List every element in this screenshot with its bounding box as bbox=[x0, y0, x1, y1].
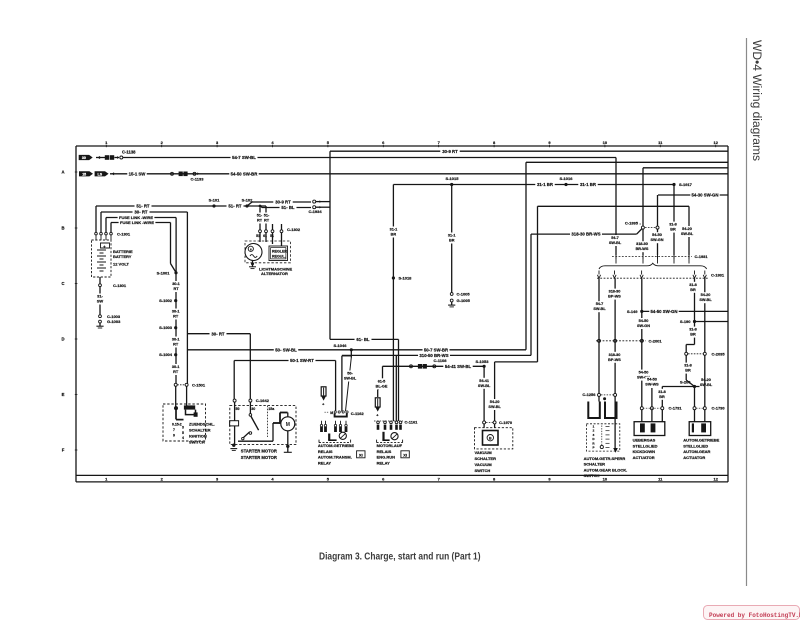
svg-text:3: 3 bbox=[182, 425, 184, 429]
svg-text:ENG.RUN: ENG.RUN bbox=[377, 455, 396, 460]
svg-text:C-1161: C-1161 bbox=[405, 420, 419, 425]
svg-text:M: M bbox=[286, 422, 290, 428]
svg-text:C-1934: C-1934 bbox=[308, 209, 322, 214]
svg-text:SCHALTER: SCHALTER bbox=[189, 428, 211, 433]
wire battery negative bbox=[99, 277, 101, 284]
connector C-2001 bbox=[596, 340, 646, 342]
connector C-1931 row 2 bbox=[597, 277, 708, 279]
wire S-200 line bbox=[662, 386, 705, 388]
svg-text:SWITCH: SWITCH bbox=[475, 468, 491, 473]
svg-text:SW-BL: SW-BL bbox=[593, 307, 606, 311]
svg-text:SW-BL: SW-BL bbox=[344, 377, 357, 381]
svg-text:54-20: 54-20 bbox=[701, 378, 711, 382]
wire 51- RT (battery main) bbox=[96, 205, 266, 207]
wire 31-8 BR below C-2035 bbox=[685, 355, 687, 380]
svg-text:SW-BL: SW-BL bbox=[478, 384, 491, 388]
connector C-1108 bbox=[410, 365, 413, 368]
svg-text:SCHALTER: SCHALTER bbox=[584, 462, 606, 467]
svg-text:12 VOLT: 12 VOLT bbox=[113, 262, 129, 267]
separator line bbox=[746, 38, 748, 586]
wire 31- SW bbox=[99, 287, 101, 315]
connector C-1005 bbox=[450, 293, 453, 296]
wire x689 drop 54-20 SW-BL bbox=[688, 206, 690, 255]
svg-text:SW-BL: SW-BL bbox=[609, 241, 622, 245]
svg-text:VAKUUM: VAKUUM bbox=[475, 450, 493, 455]
C-1138 pin circle and arrow bbox=[114, 157, 119, 159]
svg-text:4: 4 bbox=[182, 436, 184, 440]
svg-text:AUTOM.GEAR BLOCK.: AUTOM.GEAR BLOCK. bbox=[584, 467, 628, 472]
svg-text:C-1970: C-1970 bbox=[499, 420, 513, 425]
svg-text:C-1005: C-1005 bbox=[457, 292, 471, 297]
harness brace bbox=[599, 263, 707, 269]
svg-text:C-1935: C-1935 bbox=[625, 221, 639, 226]
svg-text:SW-BL: SW-BL bbox=[681, 232, 694, 236]
svg-text:D: D bbox=[61, 337, 64, 342]
svg-text:54-30 SW-GN: 54-30 SW-GN bbox=[692, 193, 719, 198]
node S-1003 bbox=[174, 326, 177, 329]
svg-text:RELAY: RELAY bbox=[377, 460, 391, 465]
svg-text:S-1002: S-1002 bbox=[159, 298, 173, 303]
wire 31-1 BR (S-1015 line) bbox=[393, 184, 674, 186]
svg-text:STARTER MOTOR: STARTER MOTOR bbox=[241, 449, 277, 454]
ignition switch internals bbox=[175, 386, 177, 408]
svg-text:ACTUATOR: ACTUATOR bbox=[633, 455, 655, 460]
svg-text:SW-BL: SW-BL bbox=[488, 405, 501, 409]
kickdown actuator bbox=[641, 410, 643, 422]
svg-text:C-1501: C-1501 bbox=[192, 382, 206, 387]
node S-102 bbox=[245, 204, 248, 207]
connector C-1970 bbox=[483, 421, 486, 424]
tag arrow LS (row 2 second) bbox=[95, 171, 109, 176]
svg-text:F: F bbox=[62, 448, 65, 453]
battery B1 12 VOLT bbox=[92, 240, 112, 277]
fuse F1 bbox=[321, 387, 326, 396]
svg-text:C-1931: C-1931 bbox=[695, 254, 709, 259]
relay K1 bracket bbox=[319, 442, 351, 444]
starter solenoid bbox=[234, 402, 236, 421]
node S-1053 bbox=[483, 365, 486, 368]
svg-text:SW-BL: SW-BL bbox=[700, 383, 713, 387]
svg-text:50- SW-BL: 50- SW-BL bbox=[275, 347, 297, 352]
svg-text:BR: BR bbox=[685, 369, 691, 373]
wire 54-30 SW-GN bbox=[658, 194, 728, 196]
fuse F2 bbox=[375, 398, 380, 407]
connector C-1501 bbox=[174, 383, 177, 386]
tag arrow 15 (row 2 left) bbox=[79, 171, 93, 176]
relay K1 internals bbox=[328, 434, 330, 441]
node S-1917 bbox=[672, 183, 675, 186]
svg-text:BR: BR bbox=[690, 288, 696, 292]
battery terminal stubs and circles C-1301 bbox=[95, 206, 97, 232]
svg-text:C-1108: C-1108 bbox=[434, 358, 448, 363]
svg-text:C-1256: C-1256 bbox=[582, 392, 596, 397]
svg-text:ZUENDSCHL.: ZUENDSCHL. bbox=[189, 422, 215, 427]
svg-text:54-53: 54-53 bbox=[647, 378, 657, 382]
svg-text:S-1053: S-1053 bbox=[476, 359, 490, 364]
svg-text:30-1: 30-1 bbox=[172, 310, 180, 314]
svg-text:STELLGLIED: STELLGLIED bbox=[683, 443, 708, 448]
connector C-1133 bbox=[171, 172, 174, 175]
svg-text:RT: RT bbox=[173, 287, 179, 291]
svg-text:RELAIS: RELAIS bbox=[318, 449, 333, 454]
svg-text:30-9 RT: 30-9 RT bbox=[442, 149, 458, 154]
regulator box REGLER bbox=[269, 246, 288, 261]
wire 54-7 SW-BL (row 1) bbox=[123, 157, 616, 159]
autom gear actuator bbox=[694, 410, 696, 422]
svg-text:30-9 RT: 30-9 RT bbox=[275, 200, 291, 205]
svg-text:SW: SW bbox=[97, 299, 104, 304]
svg-text:VACUUM: VACUUM bbox=[475, 462, 493, 467]
svg-text:0.15-2: 0.15-2 bbox=[172, 422, 182, 426]
starter switch lever bbox=[249, 402, 251, 414]
wire bus y168 bbox=[643, 167, 728, 169]
svg-text:54-41 SW-BL: 54-41 SW-BL bbox=[445, 364, 472, 369]
svg-text:50: 50 bbox=[236, 407, 240, 411]
svg-text:51- RT: 51- RT bbox=[136, 204, 150, 209]
svg-text:BR: BR bbox=[391, 233, 397, 237]
svg-text:S-101: S-101 bbox=[209, 198, 220, 203]
svg-text:B: B bbox=[489, 436, 492, 440]
node S-149 bbox=[642, 310, 728, 312]
border frame bbox=[76, 145, 728, 147]
svg-text:BR: BR bbox=[690, 333, 696, 337]
svg-text:B: B bbox=[61, 226, 64, 231]
svg-text:M: M bbox=[330, 411, 333, 415]
svg-text:31-8: 31-8 bbox=[689, 283, 697, 287]
svg-text:31-1 BR: 31-1 BR bbox=[537, 182, 554, 187]
svg-text:54-7: 54-7 bbox=[596, 302, 604, 306]
svg-text:AUTOM.GETR.SPERR: AUTOM.GETR.SPERR bbox=[584, 456, 626, 461]
svg-text:S-190: S-190 bbox=[680, 319, 691, 324]
node S-1001 bbox=[174, 271, 177, 274]
wire 54-53 SW-WS bbox=[651, 388, 653, 407]
wire row1 stub with arrowhead bbox=[96, 157, 105, 159]
svg-text:C-1931: C-1931 bbox=[711, 272, 725, 277]
svg-text:318-30: 318-30 bbox=[609, 290, 621, 294]
connector C-1642 bbox=[233, 399, 236, 402]
wire vertical 31-1 BR (x394) bbox=[392, 185, 394, 422]
gear switch arrow bbox=[613, 448, 618, 453]
connector C-1162 bbox=[334, 411, 336, 413]
ground alternator bbox=[251, 262, 254, 265]
connector C-1138 inline blocks bbox=[105, 155, 109, 160]
svg-text:C-1133: C-1133 bbox=[191, 177, 205, 182]
svg-text:LS: LS bbox=[98, 172, 103, 176]
svg-text:IGNITION: IGNITION bbox=[189, 434, 207, 439]
svg-text:54-7 SW-BL: 54-7 SW-BL bbox=[232, 155, 256, 160]
node S-1018 bbox=[392, 276, 395, 279]
svg-text:54-50 SW-BR: 54-50 SW-BR bbox=[231, 171, 259, 176]
wire 30- RT branch to starter bbox=[187, 333, 250, 335]
wire 54-41 row (C-1108) bbox=[383, 365, 485, 367]
svg-text:C-2001: C-2001 bbox=[649, 338, 663, 343]
svg-text:12: 12 bbox=[713, 140, 718, 145]
svg-text:S-1003: S-1003 bbox=[159, 325, 173, 330]
svg-text:FUSE LINK -WIRE: FUSE LINK -WIRE bbox=[120, 220, 154, 225]
relay K2 internals bbox=[382, 432, 384, 440]
vacuum switch bbox=[483, 424, 485, 428]
svg-text:54-50 SW-GN: 54-50 SW-GN bbox=[651, 309, 678, 314]
wire 61- BL bbox=[330, 338, 399, 340]
starter motor box bbox=[230, 406, 296, 445]
wire 31-8 BR x662 bbox=[661, 387, 663, 407]
svg-text:31-8: 31-8 bbox=[684, 364, 692, 368]
ground starter solenoid bbox=[232, 444, 235, 447]
wire 30- RT (battery second) bbox=[101, 211, 187, 213]
gear block switch box bbox=[586, 424, 619, 451]
svg-text:50-: 50- bbox=[347, 372, 353, 376]
wire vertical 31-1 BR (x451) bbox=[451, 185, 453, 293]
svg-text:54-50: 54-50 bbox=[652, 233, 662, 237]
svg-text:SW-GN: SW-GN bbox=[651, 238, 664, 242]
wire drops S-1046 to C-1162 bbox=[350, 350, 352, 356]
svg-text:KICKDOWN: KICKDOWN bbox=[633, 449, 656, 454]
node S-101 bbox=[212, 204, 215, 207]
svg-text:AUTOM.GETRIEBE: AUTOM.GETRIEBE bbox=[318, 443, 354, 448]
svg-text:RT: RT bbox=[264, 219, 270, 223]
svg-text:12: 12 bbox=[713, 477, 718, 482]
svg-text:50-1 SW-RT: 50-1 SW-RT bbox=[290, 358, 314, 363]
connector C-2035 bbox=[685, 352, 688, 355]
svg-text:STARTER MOTOR: STARTER MOTOR bbox=[241, 455, 277, 460]
svg-text:51- RT: 51- RT bbox=[228, 204, 242, 209]
svg-text:REGLER: REGLER bbox=[272, 250, 287, 254]
svg-text:RT: RT bbox=[257, 219, 263, 223]
svg-text:RT: RT bbox=[173, 315, 179, 319]
svg-text:SWITCH: SWITCH bbox=[189, 440, 205, 445]
node S-1004 bbox=[174, 353, 177, 356]
svg-text:BR: BR bbox=[659, 395, 665, 399]
svg-text:AUTOM.TRANSM.: AUTOM.TRANSM. bbox=[318, 455, 352, 460]
ground starter motor bbox=[287, 431, 289, 446]
svg-text:54-20: 54-20 bbox=[682, 227, 692, 231]
gear block switch contacts bbox=[603, 397, 606, 400]
svg-text:WD•4 Wiring diagrams: WD•4 Wiring diagrams bbox=[750, 40, 764, 161]
svg-text:BR-WS: BR-WS bbox=[636, 247, 649, 251]
svg-text:UEBERGAS: UEBERGAS bbox=[633, 438, 656, 443]
svg-text:Diagram 3. Charge, start and r: Diagram 3. Charge, start and run (Part 1… bbox=[319, 552, 481, 563]
svg-text:MOTORLAUF: MOTORLAUF bbox=[377, 443, 403, 448]
wire fuse-link drops to S-1001 bbox=[175, 218, 177, 273]
svg-text:XI: XI bbox=[403, 453, 407, 458]
svg-text:15: 15 bbox=[82, 172, 86, 176]
svg-text:BR: BR bbox=[670, 228, 676, 232]
svg-text:S-1046: S-1046 bbox=[334, 343, 348, 348]
svg-text:51-: 51- bbox=[264, 214, 270, 218]
connector C-1931 row 1 bbox=[612, 256, 692, 258]
svg-text:BR: BR bbox=[449, 239, 455, 243]
connector C-1161 bbox=[377, 421, 380, 424]
svg-text:30- RT: 30- RT bbox=[134, 210, 148, 215]
svg-text:31-8: 31-8 bbox=[658, 390, 666, 394]
wire 54-20 upper run bbox=[538, 205, 690, 207]
alternator U1 bbox=[245, 241, 291, 263]
wire alternator pin stubs bbox=[259, 208, 261, 230]
node S-1002 bbox=[174, 299, 177, 302]
svg-text:31-1: 31-1 bbox=[448, 234, 456, 238]
connector C-1301 lower bbox=[99, 284, 102, 287]
svg-text:30- RT: 30- RT bbox=[211, 331, 225, 336]
wire 318-30 BR-WS (to C-1935) bbox=[531, 233, 637, 235]
svg-text:7: 7 bbox=[173, 428, 175, 432]
wire 50- SW-BL / 50-7 SW-BR bbox=[187, 349, 526, 351]
wire x643 lower / 318-30 BR-WS bbox=[642, 229, 644, 255]
wire 54-50 SW-BR (row 2) bbox=[229, 171, 258, 176]
wire x657 drop 54-50 SW-GN bbox=[657, 195, 659, 226]
svg-text:C-1731: C-1731 bbox=[669, 406, 683, 411]
wire 30-1 RT chain bbox=[175, 273, 177, 383]
svg-text:61- BL: 61- BL bbox=[356, 337, 370, 342]
svg-text:SW-GN: SW-GN bbox=[637, 324, 650, 328]
wire S-1053 drop bbox=[483, 366, 485, 421]
relay K1 pins bbox=[321, 421, 323, 425]
svg-text:RT: RT bbox=[173, 343, 179, 347]
connector C-1003 bbox=[99, 315, 102, 318]
wire 50- SW-BL label bbox=[343, 371, 356, 382]
wire bus y162 bbox=[526, 161, 728, 163]
watermark bbox=[704, 606, 800, 620]
svg-text:318-30: 318-30 bbox=[636, 242, 648, 246]
svg-text:30-1: 30-1 bbox=[172, 338, 180, 342]
svg-text:50-7 SW-BR: 50-7 SW-BR bbox=[424, 347, 449, 352]
svg-text:S-1001: S-1001 bbox=[157, 270, 171, 275]
box XI (relay K2) bbox=[401, 451, 409, 458]
wire 54-50 SW-GN x641 bbox=[641, 278, 643, 407]
svg-text:A: A bbox=[61, 170, 64, 175]
wire fuse link 2 bbox=[111, 222, 171, 224]
svg-text:ACTUATOR: ACTUATOR bbox=[683, 455, 705, 460]
wire x643 drop bbox=[642, 168, 644, 226]
wire 318-30 BP-WS x615 bbox=[614, 278, 616, 394]
wire 30- RT drop x187 bbox=[186, 212, 188, 384]
connector C-1302 bbox=[259, 230, 262, 233]
wire 54-20 to C-1730 bbox=[704, 355, 706, 407]
node S-1015 bbox=[450, 183, 453, 186]
svg-text:5: 5 bbox=[182, 431, 184, 435]
node S-1046 bbox=[350, 348, 353, 351]
svg-text:C-1138: C-1138 bbox=[122, 150, 136, 155]
svg-text:STELLGLIED: STELLGLIED bbox=[633, 443, 658, 448]
connector C-1731 bbox=[640, 407, 643, 410]
svg-text:15-1 SW: 15-1 SW bbox=[129, 171, 147, 176]
svg-text:C: C bbox=[61, 281, 64, 286]
svg-text:C-1642: C-1642 bbox=[256, 398, 270, 403]
svg-text:54-41: 54-41 bbox=[479, 379, 489, 383]
svg-text:15a: 15a bbox=[268, 407, 275, 411]
svg-text:30-1: 30-1 bbox=[172, 282, 180, 286]
connector C-1730 bbox=[693, 407, 696, 410]
svg-text:E: E bbox=[62, 392, 65, 397]
wire 15-1 SW (row 2) bbox=[110, 173, 728, 175]
svg-text:SW-WS: SW-WS bbox=[645, 383, 659, 387]
ground G-1005 bbox=[450, 299, 453, 302]
wire vertical x330 (30-9 RT drop) bbox=[329, 151, 331, 339]
wire x674 drop 31-8 BR bbox=[673, 185, 675, 256]
svg-text:30: 30 bbox=[251, 407, 255, 411]
svg-text:AUTOM.GEAR: AUTOM.GEAR bbox=[683, 449, 710, 454]
svg-text:S-1016: S-1016 bbox=[560, 176, 574, 181]
svg-text:S-1015: S-1015 bbox=[446, 176, 460, 181]
relay K2 bracket bbox=[377, 442, 403, 444]
svg-text:Powered by FotoHostingTV.RU: Powered by FotoHostingTV.RU bbox=[709, 612, 800, 619]
svg-text:31-1: 31-1 bbox=[390, 228, 398, 232]
svg-text:S-200: S-200 bbox=[680, 380, 691, 385]
node S-1016 bbox=[564, 183, 567, 186]
svg-text:C-1162: C-1162 bbox=[351, 411, 365, 416]
ground G-1003 bbox=[99, 320, 102, 323]
svg-text:31-8: 31-8 bbox=[689, 328, 697, 332]
wire C-2035 jog bbox=[686, 344, 694, 346]
svg-text:61-5: 61-5 bbox=[378, 379, 386, 383]
svg-text:XI: XI bbox=[359, 453, 363, 458]
svg-text:AUTOM.GETRIEBE: AUTOM.GETRIEBE bbox=[683, 438, 719, 443]
svg-text:G-1003: G-1003 bbox=[107, 319, 121, 324]
wire vertical x531 (BR-WS riser) bbox=[530, 234, 532, 355]
svg-text:SWITCH: SWITCH bbox=[584, 473, 600, 478]
ignition switch box bbox=[163, 404, 206, 441]
svg-text:318-30 BR-WS: 318-30 BR-WS bbox=[571, 232, 600, 237]
starter motor wiring bbox=[238, 440, 273, 442]
svg-text:10: 10 bbox=[603, 140, 608, 145]
svg-text:BATTERY: BATTERY bbox=[113, 254, 132, 259]
wire 54-7 SW-BL x599 bbox=[598, 278, 600, 394]
svg-text:S-1018: S-1018 bbox=[399, 276, 413, 281]
wire 54-20 to vacuum switch bbox=[495, 361, 538, 363]
svg-text:C-1003: C-1003 bbox=[107, 314, 121, 319]
wire 50-1 SW-RT bbox=[234, 360, 335, 362]
svg-text:31-8: 31-8 bbox=[669, 223, 677, 227]
svg-text:BL-GE: BL-GE bbox=[376, 384, 388, 388]
svg-text:RELAY: RELAY bbox=[318, 460, 332, 465]
svg-text:54-50: 54-50 bbox=[639, 319, 649, 323]
wire vertical x537 (54-20 riser) bbox=[537, 206, 539, 362]
wire 54-7 SW-BL drop x616 bbox=[615, 158, 617, 256]
svg-text:REGUL.: REGUL. bbox=[272, 255, 286, 259]
svg-text:C-1730: C-1730 bbox=[712, 406, 726, 411]
svg-text:P: P bbox=[592, 446, 594, 450]
svg-text:C-1301: C-1301 bbox=[113, 283, 127, 288]
svg-text:51- BL: 51- BL bbox=[281, 205, 295, 210]
svg-text:SCHALTER: SCHALTER bbox=[475, 456, 497, 461]
wire vertical x526 (50-7 SW-BR riser) bbox=[525, 162, 527, 349]
wire 30-9 RT to C-1934 bbox=[247, 202, 252, 206]
wire 310-50 BR-WS bbox=[342, 354, 531, 356]
svg-text:30: 30 bbox=[82, 156, 86, 160]
svg-text:318-30: 318-30 bbox=[609, 353, 621, 357]
svg-text:9: 9 bbox=[173, 433, 175, 437]
box XI (relay K1) bbox=[357, 451, 365, 458]
svg-text:S-149: S-149 bbox=[627, 309, 638, 314]
svg-text:10: 10 bbox=[603, 477, 608, 482]
wire 54-20 x704 bbox=[704, 278, 706, 352]
svg-text:RELAIS: RELAIS bbox=[377, 449, 392, 454]
svg-text:C-1302: C-1302 bbox=[287, 227, 301, 232]
svg-text:BP-WS: BP-WS bbox=[608, 295, 621, 299]
wire 31-8 BR x694 bbox=[694, 278, 696, 344]
svg-text:S-1004: S-1004 bbox=[159, 352, 173, 357]
node S-190 bbox=[695, 321, 729, 323]
svg-text:30-1: 30-1 bbox=[172, 365, 180, 369]
svg-text:51-: 51- bbox=[257, 214, 263, 218]
svg-text:BP-WS: BP-WS bbox=[608, 358, 621, 362]
svg-text:31-1 BR: 31-1 BR bbox=[580, 182, 597, 187]
svg-text:54-20: 54-20 bbox=[701, 293, 711, 297]
wire 51- BL to C-1934 bbox=[259, 205, 262, 208]
connector C-1935 bbox=[641, 226, 644, 229]
svg-text:C-2035: C-2035 bbox=[712, 351, 726, 356]
svg-text:RT: RT bbox=[173, 370, 179, 374]
connector C-1934 bbox=[313, 200, 316, 203]
